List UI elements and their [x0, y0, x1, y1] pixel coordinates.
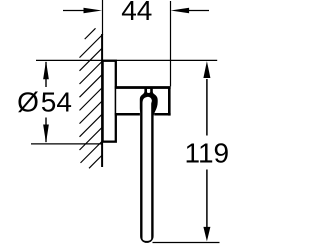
svg-text:Ø: Ø [17, 86, 39, 117]
svg-text:54: 54 [41, 86, 72, 117]
svg-text:119: 119 [184, 138, 229, 169]
svg-text:44: 44 [121, 0, 152, 26]
